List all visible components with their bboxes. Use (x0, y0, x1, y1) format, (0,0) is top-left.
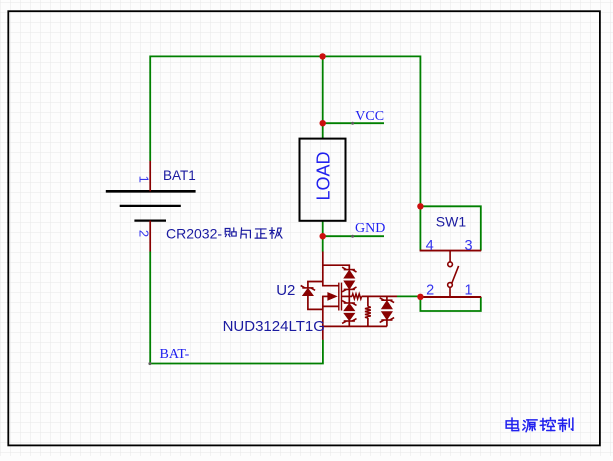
svg-text:2: 2 (426, 282, 434, 298)
svg-text:NUD3124LT1G: NUD3124LT1G (223, 318, 325, 335)
svg-text:VCC: VCC (355, 109, 384, 124)
svg-text:1: 1 (137, 176, 152, 183)
svg-text:LOAD: LOAD (314, 151, 334, 200)
svg-text:4: 4 (426, 238, 434, 254)
svg-text:GND: GND (355, 221, 385, 236)
svg-text:1: 1 (464, 282, 472, 298)
svg-text:U2: U2 (276, 282, 295, 299)
svg-text:CR2032-: CR2032- (166, 225, 222, 241)
svg-text:SW1: SW1 (436, 213, 467, 229)
svg-text:BAT1: BAT1 (163, 168, 196, 183)
svg-text:3: 3 (465, 238, 473, 254)
svg-text:BAT-: BAT- (160, 347, 190, 362)
svg-text:2: 2 (137, 230, 152, 237)
